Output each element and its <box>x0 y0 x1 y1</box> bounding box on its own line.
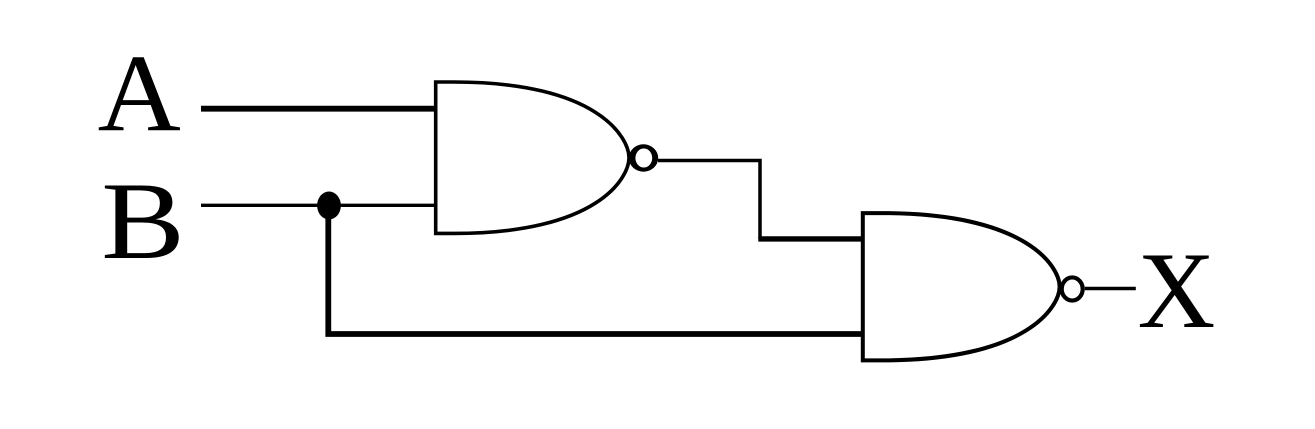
nand gate U1 output bubble <box>629 144 658 171</box>
nand gate U2 output bubble <box>1060 275 1085 302</box>
svg-text:X: X <box>1138 230 1216 351</box>
wire: junction down then right to U2 bottom input <box>328 206 863 335</box>
junction dot on B wire <box>317 192 341 220</box>
wire: A to U1 top input <box>201 106 438 112</box>
wire: U1 output right then down <box>658 161 760 240</box>
nand gate U2 body <box>863 213 1060 360</box>
svg-text:B: B <box>101 160 185 282</box>
wire: U2 output to X <box>1085 287 1136 290</box>
nand gate U1 body <box>436 82 629 233</box>
wire: thick segment to U2 top input <box>758 236 863 241</box>
wire: B to U1 bottom input <box>201 204 437 207</box>
svg-text:A: A <box>98 33 181 154</box>
